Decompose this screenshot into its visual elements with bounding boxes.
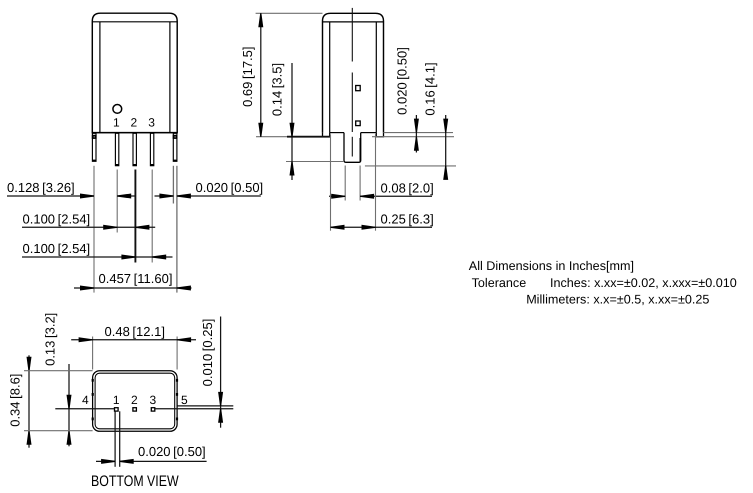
dim 0.48 line bbox=[71, 339, 196, 341]
bottom view tab row line right bbox=[177, 405, 233, 407]
pin 1 index circle bbox=[113, 105, 122, 114]
dim 0.25 arrows bbox=[331, 225, 345, 230]
front view body outline bbox=[92, 13, 177, 132]
dim 0.13 line bbox=[68, 364, 70, 446]
dim 0.020 bottom line bbox=[96, 460, 115, 462]
dim 0.020 bottom arrows bbox=[101, 459, 115, 464]
dim 0.14 line bbox=[291, 63, 293, 180]
bottom view edge tick marks bbox=[92, 379, 94, 382]
svg-text:2: 2 bbox=[131, 116, 138, 130]
svg-text:1: 1 bbox=[113, 393, 120, 407]
svg-text:0.08 [2.0]: 0.08 [2.0] bbox=[381, 181, 434, 196]
bottom view outer outline bbox=[93, 371, 178, 432]
dim 0.34 line bbox=[28, 355, 30, 447]
side body-bottom extension line right bbox=[384, 132, 454, 134]
front mounting pin left bbox=[92, 133, 96, 161]
side stub-bottom extension line left bbox=[286, 161, 344, 163]
svg-text:0.48 [12.1]: 0.48 [12.1] bbox=[105, 324, 165, 339]
side view bottom edge right segment bbox=[361, 132, 377, 134]
dim 0.128 arrows bbox=[80, 194, 94, 199]
front mounting pin right bbox=[173, 133, 177, 161]
extension line pin1 center bbox=[116, 170, 118, 233]
dim 0.020 front arrows bbox=[159, 194, 173, 199]
dim 0.020 side arrows bbox=[414, 119, 419, 133]
dim 0.13 arrows bbox=[67, 395, 72, 409]
svg-text:3: 3 bbox=[149, 393, 156, 407]
svg-text:0.14 [3.5]: 0.14 [3.5] bbox=[270, 63, 285, 116]
extension line pin2 center bbox=[134, 170, 136, 263]
side view centerline bbox=[351, 8, 353, 62]
side view bottom stub bbox=[344, 133, 361, 163]
dim 0.128 line bbox=[7, 195, 94, 197]
dim 0.100 b arrows bbox=[121, 255, 135, 260]
front body bottom edge bbox=[92, 132, 177, 134]
front pin 3 bbox=[150, 133, 153, 165]
side view inner left edge bbox=[329, 22, 331, 133]
side stub-bottom extension line right bbox=[365, 165, 456, 167]
svg-text:0.020 [0.50]: 0.020 [0.50] bbox=[394, 47, 409, 115]
bottom view pad square 2 bbox=[133, 408, 137, 411]
dim 0.08 extension lines bbox=[344, 166, 346, 201]
svg-text:Millimeters: x.x=±0.5, x.xx=±0: Millimeters: x.x=±0.5, x.xx=±0.25 bbox=[526, 293, 709, 307]
extension line pin3 center bbox=[151, 170, 153, 263]
dim 0.25 line bbox=[331, 226, 433, 228]
svg-text:5: 5 bbox=[181, 393, 188, 407]
side foot-level extension line right bbox=[372, 136, 454, 138]
dim 0.16 arrows bbox=[443, 119, 448, 133]
svg-text:3: 3 bbox=[148, 116, 155, 130]
dim 0.69 arrows bbox=[258, 13, 263, 27]
bottom view pad square 3 bbox=[151, 408, 155, 411]
bottom view inner outline bbox=[95, 373, 175, 429]
side view bottom edge left segment bbox=[330, 132, 344, 134]
dim 0.100 b line bbox=[22, 256, 173, 258]
side view body outline bbox=[323, 13, 384, 132]
svg-text:Inches: x.xx=±0.02, x.xxx=±0.0: Inches: x.xx=±0.02, x.xxx=±0.010 bbox=[550, 276, 737, 290]
side view stub right shade line bbox=[359, 138, 361, 162]
dim 0.010 arrows bbox=[218, 392, 223, 406]
dim 0.25 extension lines bbox=[330, 135, 332, 231]
dim 0.34 arrows bbox=[27, 357, 32, 371]
bottom view top extension line bbox=[24, 370, 93, 372]
svg-text:0.010 [0.25]: 0.010 [0.25] bbox=[200, 319, 215, 387]
front view cap line bbox=[92, 21, 177, 23]
dim 0.48 arrows bbox=[79, 337, 93, 342]
dim 0.010 line bbox=[220, 317, 222, 428]
front pin 2 bbox=[133, 133, 136, 165]
svg-text:0.457 [11.60]: 0.457 [11.60] bbox=[99, 271, 173, 286]
svg-text:0.16 [4.1]: 0.16 [4.1] bbox=[423, 62, 438, 115]
bottom view pad square 1 bbox=[115, 408, 119, 411]
extension line left pin center bbox=[93, 166, 95, 293]
svg-text:0.69 [17.5]: 0.69 [17.5] bbox=[240, 46, 255, 106]
front view inner right edge bbox=[169, 22, 171, 133]
side view lower pin square bbox=[356, 121, 361, 126]
bottom view pad row line right bbox=[155, 408, 233, 410]
dim 0.020 front line bbox=[155, 195, 174, 197]
svg-text:0.020 [0.50]: 0.020 [0.50] bbox=[196, 180, 264, 195]
dim 0.457 arrows bbox=[80, 286, 94, 291]
dim 0.020 side line bbox=[415, 115, 417, 153]
bottom view pad row line left bbox=[55, 408, 114, 410]
side view cap line bbox=[323, 21, 384, 23]
front pin 1 bbox=[115, 133, 118, 165]
svg-text:All Dimensions in Inches[mm]: All Dimensions in Inches[mm] bbox=[469, 259, 634, 273]
extension line right pin right edge bbox=[176, 166, 178, 293]
dim 0.457 line bbox=[74, 287, 192, 289]
svg-text:0.34 [8.6]: 0.34 [8.6] bbox=[7, 374, 22, 427]
dim 0.100 a line bbox=[22, 226, 155, 228]
bottom view bottom extension line bbox=[24, 430, 93, 432]
front view inner left edge bbox=[99, 22, 101, 133]
svg-text:BOTTOM VIEW: BOTTOM VIEW bbox=[91, 473, 179, 490]
dim 0.69 line bbox=[260, 13, 262, 136]
side view upper pin square bbox=[356, 86, 361, 91]
dim 0.08 line bbox=[329, 195, 345, 197]
svg-text:4: 4 bbox=[82, 393, 89, 407]
svg-text:2: 2 bbox=[131, 393, 138, 407]
svg-text:0.25 [6.3]: 0.25 [6.3] bbox=[381, 212, 434, 227]
dim 0.14 arrows bbox=[290, 123, 295, 137]
svg-text:1: 1 bbox=[113, 116, 120, 130]
dim 0.16 line bbox=[445, 115, 447, 178]
svg-text:0.13 [3.2]: 0.13 [3.2] bbox=[43, 313, 58, 366]
svg-text:0.100 [2.54]: 0.100 [2.54] bbox=[23, 241, 91, 256]
side view right foot bbox=[376, 133, 383, 137]
dim 0.100 a arrows bbox=[103, 225, 117, 230]
side view inner right edge bbox=[375, 22, 377, 133]
svg-text:0.020 [0.50]: 0.020 [0.50] bbox=[138, 444, 206, 459]
side top extension line bbox=[256, 12, 323, 14]
dim 0.48 extension lines bbox=[92, 337, 94, 370]
extension line right pin left edge bbox=[172, 166, 174, 204]
svg-text:0.100 [2.54]: 0.100 [2.54] bbox=[23, 212, 91, 227]
dim 0.020 bottom extension lines bbox=[114, 411, 116, 467]
svg-text:Tolerance: Tolerance bbox=[472, 276, 527, 290]
svg-text:0.128 [3.26]: 0.128 [3.26] bbox=[7, 180, 75, 195]
side view left foot bbox=[323, 133, 330, 137]
side foot-level extension line left bbox=[256, 136, 330, 138]
dim 0.08 arrows bbox=[331, 194, 345, 199]
